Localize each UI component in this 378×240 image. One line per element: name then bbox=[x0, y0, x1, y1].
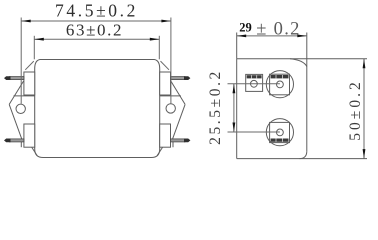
terminal block top-right bbox=[160, 72, 171, 95]
terminal block bottom-left bbox=[24, 124, 35, 147]
body left edge bbox=[236, 59, 238, 159]
top-right corner chamfer line bbox=[161, 61, 170, 70]
right flange lower diagonal bbox=[173, 104, 185, 138]
pin bottom-right bbox=[171, 139, 185, 142]
pin top-left bbox=[10, 77, 24, 80]
dim line 50 bbox=[363, 59, 365, 159]
right mounting flange top edge bbox=[160, 95, 181, 97]
pin top-right bbox=[171, 77, 185, 80]
svg-text:25.5±0.2: 25.5±0.2 bbox=[207, 69, 224, 145]
svg-text:± 0.2: ± 0.2 bbox=[256, 20, 300, 40]
right flange upper diagonal bbox=[171, 81, 185, 104]
left flange upper diagonal bbox=[9, 81, 23, 104]
body right edge + 29 right extension bbox=[306, 33, 308, 152]
top-right corner arc bbox=[290, 59, 307, 67]
dim 74.5 extension line left bbox=[20, 18, 22, 104]
svg-text:74.5±0.2: 74.5±0.2 bbox=[55, 1, 138, 21]
dim 74.5 extension line right bbox=[170, 18, 172, 104]
dim line 25.5 bbox=[233, 84, 235, 132]
left flange lower diagonal bbox=[9, 104, 21, 138]
terminal block top-left bbox=[24, 72, 35, 95]
dim line 63 bbox=[34, 38, 159, 40]
terminal block bottom-right bbox=[160, 124, 171, 147]
svg-text:63±0.2: 63±0.2 bbox=[66, 21, 123, 40]
29 left extension bbox=[236, 33, 238, 59]
left gusset bbox=[32, 147, 37, 155]
25.5 extension line bottom bbox=[228, 131, 280, 133]
filter body side view bbox=[35, 60, 160, 158]
body bottom edge + 50 bottom extension bbox=[237, 158, 367, 160]
dim 63 extension line left bbox=[33, 36, 35, 60]
top-left corner chamfer line bbox=[25, 61, 34, 70]
line terminal bottom bbox=[266, 119, 293, 146]
body top edge + 50 top extension bbox=[237, 58, 367, 60]
pin bottom-left bbox=[10, 139, 24, 142]
right gusset bbox=[157, 147, 162, 155]
dim 63 extension line right bbox=[158, 36, 160, 60]
right flange hole bbox=[166, 104, 175, 113]
svg-text:29: 29 bbox=[239, 20, 252, 34]
line terminal top bbox=[266, 71, 293, 98]
25.5 extension line top bbox=[228, 83, 280, 85]
ground terminal bbox=[246, 74, 263, 91]
left mounting flange top edge bbox=[14, 95, 35, 97]
dim line 29 bbox=[237, 35, 307, 37]
ground terminal screw bbox=[251, 80, 258, 87]
bottom-right corner arc bbox=[300, 152, 307, 159]
left flange hole bbox=[16, 104, 25, 113]
svg-text:50±0.2: 50±0.2 bbox=[347, 79, 364, 140]
dim line 74.5 bbox=[21, 20, 171, 22]
